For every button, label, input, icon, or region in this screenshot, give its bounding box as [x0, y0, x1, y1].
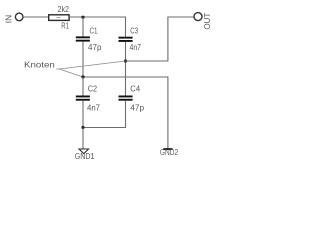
svg-text:C1: C1 — [90, 26, 98, 35]
svg-text:47p: 47p — [88, 43, 102, 52]
svg-text:GND1: GND1 — [75, 151, 95, 161]
wire node B down to C2 — [82, 77, 84, 96]
wire C4 down and left to node D — [83, 101, 126, 128]
svg-text:47p: 47p — [130, 104, 144, 113]
ground GND2 — [163, 148, 172, 150]
capacitor C4 — [119, 96, 133, 98]
wire top corner down to C3 — [125, 17, 127, 37]
svg-text:C3: C3 — [130, 26, 138, 35]
terminal OUT — [194, 13, 202, 21]
svg-text:IN: IN — [4, 15, 13, 24]
wire node C to OUT — [126, 17, 194, 61]
svg-text:4n7: 4n7 — [130, 43, 142, 52]
junction node B — [81, 75, 84, 78]
svg-text:R1: R1 — [61, 21, 69, 31]
capacitor C3 — [119, 37, 133, 39]
terminal IN — [15, 13, 23, 21]
ground GND1 — [79, 149, 89, 154]
wire R1 to C3 top — [69, 16, 125, 18]
svg-text:C4: C4 — [130, 85, 140, 94]
leader line to node B — [59, 69, 83, 77]
wire C1 to node B — [82, 42, 84, 77]
svg-text:2k2: 2k2 — [58, 4, 70, 14]
wire node A down to C1 — [82, 17, 84, 37]
capacitor C2 — [76, 96, 90, 98]
svg-text:GND2: GND2 — [160, 147, 179, 157]
svg-text:OUT: OUT — [203, 13, 212, 30]
leader stub from label — [56, 68, 59, 70]
node wire B to GND2 corner — [83, 77, 168, 148]
junction node D — [81, 126, 84, 129]
wire IN to R1 — [23, 16, 48, 18]
wire node D to GND1 — [82, 128, 84, 150]
capacitor C1 — [76, 36, 90, 38]
svg-text:4n7: 4n7 — [87, 104, 101, 113]
svg-text:C2: C2 — [88, 85, 98, 94]
wire C2 down to node D — [82, 101, 84, 128]
resistor R1 — [49, 15, 69, 21]
wire C3 down through node line to C4 — [125, 42, 127, 96]
svg-text:Knoten: Knoten — [24, 60, 55, 70]
junction node C (C3 to OUT) — [124, 59, 127, 62]
leader line to node C — [59, 61, 125, 69]
junction node A — [81, 16, 84, 19]
